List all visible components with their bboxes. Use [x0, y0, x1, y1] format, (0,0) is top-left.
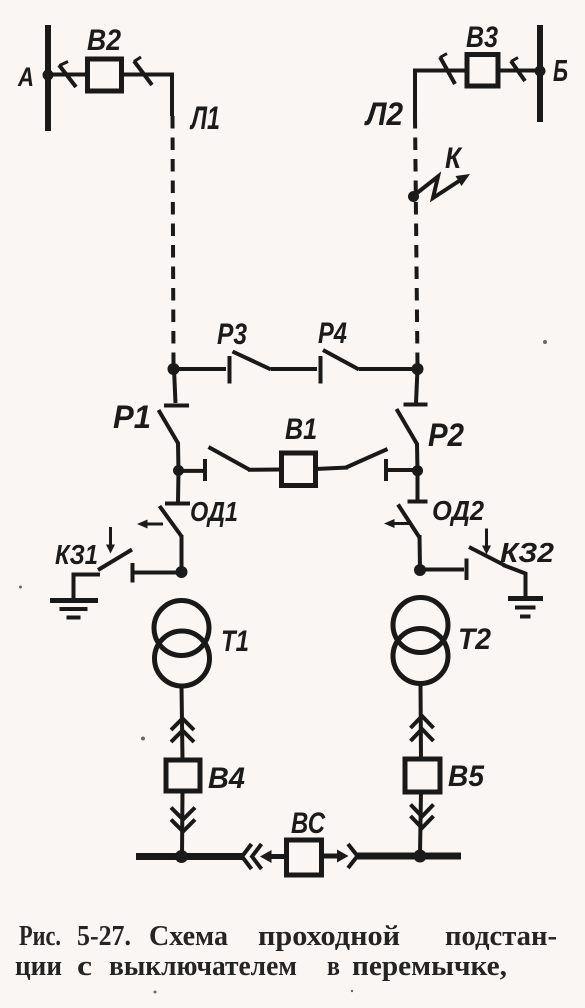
- junction at KZ1: [176, 566, 188, 578]
- BC right plug arrow: [322, 854, 339, 859]
- caption line 2: [15, 950, 507, 982]
- svg-text:Рис.: Рис.: [19, 920, 61, 952]
- svg-text:Р1: Р1: [113, 399, 151, 435]
- ground KZ2: [508, 596, 543, 601]
- wire B1 to right blade: [316, 468, 349, 470]
- plug contact chevrons above B4: [171, 719, 194, 731]
- corner wire down line L2: [413, 69, 417, 117]
- wire right column to P2: [416, 369, 418, 403]
- plug contact chevrons above B5: [411, 716, 434, 728]
- wire jumper segment 1: [174, 367, 227, 371]
- OD1 spring arrow: [146, 523, 163, 526]
- svg-text:Схема: Схема: [149, 920, 228, 952]
- junction T2 branch on bus: [414, 850, 427, 863]
- wire KZ1: [134, 571, 182, 575]
- plug contact chevrons below B5: [411, 805, 434, 817]
- KZ2 contact tick: [465, 559, 469, 581]
- svg-text:Т2: Т2: [458, 623, 491, 656]
- bottom bus left segment: [136, 853, 242, 860]
- bus end chevron right of BC: [348, 844, 358, 868]
- KZ2 drive arrow: [485, 529, 488, 547]
- breaker B3: [467, 55, 498, 87]
- svg-text:5-27.: 5-27.: [77, 920, 131, 952]
- breaker B4: [166, 760, 200, 791]
- bus A: [45, 25, 51, 131]
- wire B4 to bus: [180, 791, 185, 855]
- svg-text:ОД1: ОД1: [190, 496, 238, 527]
- separator OD2 blade: [398, 505, 420, 538]
- svg-text:КЗ1: КЗ1: [55, 539, 98, 570]
- breaker BC: [287, 840, 322, 875]
- wire B1 jumper left: [179, 469, 204, 473]
- wire junction to OD1: [176, 471, 181, 503]
- BC left plug arrow: [260, 850, 272, 863]
- wire tick to right column: [388, 468, 418, 472]
- breaker B1: [282, 453, 316, 486]
- svg-text:Т1: Т1: [221, 625, 249, 658]
- wire blade to B1: [248, 468, 282, 472]
- B1 right disconnector blade: [346, 449, 388, 468]
- disconnector P1 contact tick: [164, 404, 189, 408]
- disconnector P3 blade: [233, 352, 272, 370]
- svg-text:с: с: [77, 950, 92, 982]
- transformer T1: [154, 601, 209, 656]
- svg-text:Р2: Р2: [428, 417, 464, 453]
- wire T1 to B4: [182, 686, 183, 760]
- dashed line L2: [415, 116, 418, 366]
- svg-text:КЗ2: КЗ2: [500, 537, 554, 568]
- bottom bus right segment: [358, 853, 462, 860]
- KZ2 ground wire: [503, 565, 526, 597]
- bus end chevrons left of BC: [242, 844, 252, 869]
- svg-text:ОД2: ОД2: [432, 495, 484, 526]
- junction on bus A: [43, 70, 54, 81]
- wire bus A to disconnector slash: [48, 73, 88, 77]
- disconnector P3 contact tick: [228, 356, 232, 384]
- KZ2 blade: [469, 547, 505, 566]
- dashed line L1: [173, 116, 174, 366]
- wire jumper segment 2: [271, 367, 317, 371]
- KZ1 contact tick: [131, 563, 135, 583]
- disconnector P2 contact tick: [404, 403, 428, 407]
- ground KZ1: [50, 598, 98, 603]
- wire B2 to corner: [122, 73, 173, 77]
- svg-text:подстан-: подстан-: [445, 920, 557, 952]
- disconnector P1 blade: [159, 410, 179, 444]
- svg-text:Л1: Л1: [190, 100, 220, 136]
- wire T2 to B5: [419, 684, 424, 760]
- wire corner to B3: [415, 69, 467, 73]
- B1 left disconnector tick: [203, 459, 207, 481]
- fault node K dot: [408, 191, 419, 202]
- disconnector slash left of B3: [440, 57, 455, 84]
- transformer T2: [393, 598, 448, 653]
- svg-text:К: К: [445, 142, 463, 175]
- junction T1 branch on bus: [175, 850, 188, 863]
- wire KZ2: [420, 568, 464, 572]
- KZ1 ground wire: [74, 575, 101, 601]
- wire B5 to bus: [420, 792, 421, 853]
- svg-text:В5: В5: [448, 760, 485, 793]
- wire OD2 to junction: [418, 535, 423, 570]
- separator OD1 blade: [160, 506, 183, 537]
- KZ1 drive arrow: [109, 527, 112, 545]
- junction on bus B: [535, 66, 546, 77]
- svg-text:выключателем: выключателем: [109, 950, 297, 982]
- svg-text:В1: В1: [285, 413, 317, 446]
- junction at KZ2: [414, 564, 426, 576]
- B1 left disconnector blade: [209, 447, 251, 470]
- svg-text:Р3: Р3: [217, 318, 247, 351]
- svg-text:В4: В4: [208, 762, 245, 795]
- svg-text:А: А: [17, 62, 34, 92]
- separator OD1 contact tick: [165, 502, 190, 506]
- plug contact chevrons below B4: [171, 808, 195, 820]
- disconnector slash right of B3: [511, 61, 525, 81]
- wire B3 to bus B: [498, 69, 540, 73]
- breaker B5: [405, 759, 440, 792]
- svg-text:проходной: проходной: [258, 920, 400, 952]
- separator OD2 contact tick: [408, 500, 428, 504]
- svg-text:В2: В2: [87, 24, 121, 57]
- wire P1 to junction: [176, 443, 181, 472]
- junction jumper left: [168, 363, 180, 375]
- svg-text:ВС: ВС: [291, 807, 326, 840]
- disconnector slash left of B2: [59, 65, 76, 87]
- wire jumper segment 3: [359, 367, 418, 371]
- wire P2 to junction: [415, 443, 420, 472]
- scan speckles: [19, 340, 547, 994]
- bus B: [537, 25, 543, 122]
- disconnector P2 blade: [397, 409, 418, 444]
- caption line 1: [19, 920, 557, 952]
- fault arrow K: [417, 177, 459, 199]
- svg-text:ции: ции: [15, 950, 62, 982]
- junction right of B1 jumper: [412, 465, 423, 476]
- wire left column to P1: [174, 369, 176, 403]
- OD2 spring arrow: [393, 522, 410, 525]
- wire OD1 to junction: [180, 535, 184, 572]
- svg-text:В3: В3: [466, 21, 498, 54]
- svg-text:Р4: Р4: [318, 317, 347, 350]
- junction jumper right: [412, 363, 424, 375]
- svg-text:Б: Б: [553, 53, 568, 88]
- KZ1 blade: [98, 550, 132, 571]
- disconnector slash right of B2: [134, 61, 152, 85]
- disconnector P4 contact tick: [319, 356, 323, 384]
- junction left of B1 jumper: [173, 465, 184, 476]
- svg-text:перемычке,: перемычке,: [352, 950, 507, 982]
- svg-text:в: в: [327, 950, 340, 982]
- svg-text:Л2: Л2: [364, 96, 403, 132]
- wire junction to OD2: [416, 471, 420, 500]
- corner wire down line L1: [170, 73, 174, 117]
- B1 right disconnector tick: [384, 459, 388, 481]
- breaker B2: [88, 59, 122, 91]
- disconnector P4 blade: [323, 350, 359, 370]
